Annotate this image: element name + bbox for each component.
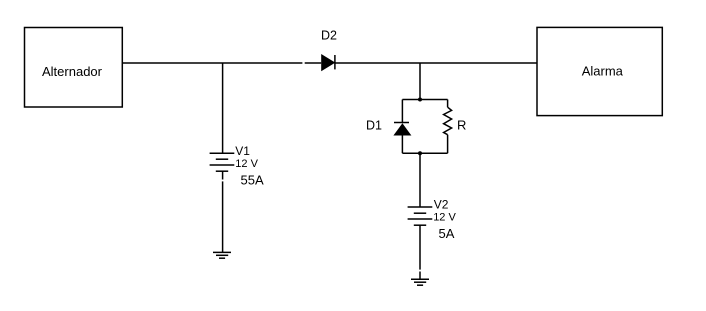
- diode D1 cathode bar: [394, 122, 409, 124]
- svg-text:Alarma: Alarma: [582, 64, 624, 79]
- battery V1 plate short: [216, 158, 228, 160]
- ground G2 bar 1: [411, 278, 429, 280]
- node bottom junction dot: [418, 151, 422, 155]
- ground G2 bar 3: [417, 284, 423, 286]
- wire parallel bottom rail: [402, 152, 447, 154]
- wire V1 to ground: [222, 181, 224, 252]
- wire D1 lower lead: [401, 136, 403, 154]
- battery V1 plate long top: [210, 152, 235, 154]
- diode D2 cathode bar: [334, 55, 336, 69]
- svg-text:12 V: 12 V: [433, 211, 456, 223]
- wire main A (Alternador to gap): [122, 62, 302, 64]
- svg-text:R: R: [457, 117, 466, 132]
- svg-text:55A: 55A: [241, 172, 264, 187]
- svg-text:12 V: 12 V: [235, 158, 258, 170]
- diode D2 triangle: [321, 54, 335, 71]
- wire R upper lead: [447, 100, 449, 108]
- block Alternador: [25, 28, 123, 108]
- svg-text:V2: V2: [434, 198, 449, 212]
- battery V2 plate short bottom: [414, 224, 426, 226]
- svg-text:V1: V1: [235, 144, 250, 158]
- wire V2 branch vertical: [419, 63, 421, 100]
- battery V2 plate long bottom: [408, 218, 433, 220]
- wire D1 upper lead: [401, 100, 403, 123]
- svg-text:D2: D2: [321, 29, 337, 43]
- wire main C (D2 cathode to Alarma): [335, 62, 537, 64]
- svg-text:5A: 5A: [439, 226, 455, 241]
- node top junction dot: [418, 98, 422, 102]
- diode D1 triangle: [393, 123, 411, 135]
- block Alarma: [537, 27, 662, 115]
- wire R lower lead: [447, 135, 449, 154]
- ground G1 bar 2: [216, 254, 228, 256]
- ground G1 bar 1: [213, 251, 231, 253]
- ground G2 bar 2: [414, 281, 426, 283]
- svg-text:D1: D1: [366, 119, 382, 133]
- battery V1 plate short bottom: [216, 170, 228, 172]
- battery V2 plate long top: [408, 206, 433, 208]
- resistor R zigzag: [444, 107, 452, 135]
- battery V2 plate short: [414, 212, 426, 214]
- wire V2 node to battery: [419, 153, 421, 207]
- battery V1 lower lead: [222, 171, 224, 179]
- svg-text:Alternador: Alternador: [42, 64, 103, 79]
- wire parallel top rail: [402, 99, 447, 101]
- battery V1 plate long bottom: [210, 164, 235, 166]
- wire V2 to ground: [419, 272, 421, 280]
- ground G1 bar 3: [219, 257, 225, 259]
- wire V1 branch vertical: [222, 63, 224, 153]
- wire main B (gap to D2 anode): [305, 62, 322, 64]
- battery V2 lower lead: [419, 225, 421, 269]
